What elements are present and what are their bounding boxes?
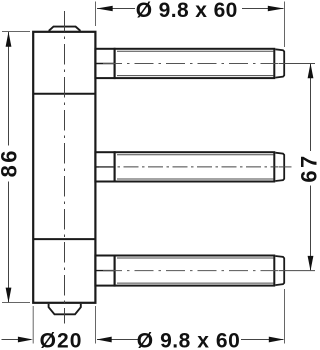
barrel center line [64, 11, 66, 324]
pin 3 threaded rod [115, 256, 275, 286]
pin 3 thread root bottom [117, 282, 274, 284]
extension line top-dim right [284, 2, 286, 48]
svg-text:67: 67 [297, 153, 319, 182]
pin 1 neck mid line [95, 63, 114, 65]
pin 1 center line extension [279, 63, 316, 65]
pin 2 tip [275, 153, 284, 181]
pin 2 thread root bottom [117, 178, 274, 180]
pin 3 neck mid line [95, 270, 114, 272]
extension line bottom-right pin tip [284, 289, 286, 344]
arrow 67 down [308, 256, 314, 271]
arrow 86 up [6, 32, 12, 47]
arrow 67 up [308, 63, 314, 78]
pin 2 thread root top [117, 154, 274, 156]
dimension line bottom middle tail [97, 339, 138, 341]
extension line 86 bottom [2, 302, 30, 304]
extension line 86 top [2, 31, 30, 33]
dimension line 86 [8, 32, 10, 302]
barrel bottom cap [49, 304, 81, 314]
pin 2 neck [95, 152, 114, 181]
dimension line d20 left tail [2, 339, 32, 341]
pin 1 thread root bottom [117, 75, 274, 77]
pin 1 center line [103, 63, 278, 65]
pin 2 center line extension [279, 166, 292, 168]
pin 3 center line extension [279, 270, 316, 272]
hinge barrel body [33, 32, 95, 303]
pin 2 neck mid line [95, 166, 114, 168]
pin 1 threaded rod [115, 49, 275, 78]
arrow top-dim left [97, 6, 113, 11]
arrow d20 right-pointing [18, 337, 33, 343]
pin 3 thread root top [117, 257, 274, 259]
pin 3 neck [95, 256, 114, 286]
arrow bottom left-pointing [97, 337, 112, 343]
arrow top-dim right [268, 6, 284, 11]
svg-text:Ø 9.8 x 60: Ø 9.8 x 60 [137, 329, 241, 350]
barrel division line lower [33, 238, 95, 240]
svg-text:Ø20: Ø20 [40, 329, 83, 350]
pin 1 tip [275, 49, 284, 77]
pin 3 center line [103, 270, 278, 272]
pin 2 threaded rod [115, 152, 275, 181]
pin 1 neck [95, 49, 114, 78]
barrel division line upper [33, 93, 95, 95]
extension line d20 left [32, 306, 34, 344]
svg-text:86: 86 [0, 148, 22, 177]
dimension line top [97, 8, 284, 10]
dimension line bottom right tail [241, 339, 284, 341]
pin 1 thread root top [117, 50, 274, 52]
arrow 86 down [6, 288, 12, 303]
pin 2 center line [99, 166, 278, 168]
extension line d20 right [95, 306, 97, 344]
arrow bottom right-pointing [269, 337, 284, 343]
svg-text:Ø 9.8 x 60: Ø 9.8 x 60 [136, 0, 238, 22]
barrel top cap [49, 27, 81, 31]
dimension line 67 [310, 64, 312, 270]
extension line top-dim left [95, 2, 97, 27]
pin 3 tip [275, 256, 284, 285]
